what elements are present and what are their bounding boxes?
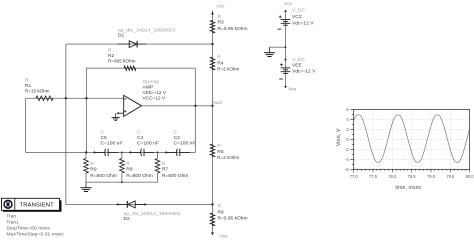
svg-text:TRANSIENT: TRANSIENT xyxy=(20,202,55,208)
svg-text:C: C xyxy=(174,130,178,136)
svg-text:77.5: 77.5 xyxy=(369,174,378,179)
svg-text:Vout: Vout xyxy=(213,100,222,106)
transient icon xyxy=(3,200,12,209)
wire D1 top feedback wire xyxy=(66,43,213,45)
node junction rail D2 xyxy=(211,203,213,205)
svg-text:OpAmp: OpAmp xyxy=(143,79,160,85)
wire R8 top lead xyxy=(121,152,123,158)
resistor R6 xyxy=(210,213,215,226)
ground ladder xyxy=(85,182,87,187)
wire ladder resistor ground bus xyxy=(86,173,158,182)
svg-text:D1: D1 xyxy=(118,33,125,39)
node junction ladder first node xyxy=(85,151,87,153)
svg-text:R=5.95 kOhm: R=5.95 kOhm xyxy=(218,26,248,32)
svg-text:R=600 Ohm: R=600 Ohm xyxy=(126,173,153,179)
wire right rail Vcc to Vee xyxy=(212,11,214,233)
wire ladder input drop xyxy=(25,98,27,152)
node junction output/R2/ladder xyxy=(194,105,196,107)
svg-text:Vee: Vee xyxy=(220,234,229,239)
node junction R8 bottom xyxy=(121,181,123,183)
svg-text:time, msec: time, msec xyxy=(395,185,421,191)
svg-text:R: R xyxy=(25,78,29,84)
capacitor C4 xyxy=(140,149,143,156)
svg-text:R: R xyxy=(90,161,94,167)
diode D2 xyxy=(116,203,127,205)
svg-text:Vcc: Vcc xyxy=(284,1,293,7)
node Vout junction rail output xyxy=(211,105,213,107)
svg-text:D2: D2 xyxy=(124,216,131,222)
wire inverting node down to ladder node xyxy=(85,98,87,152)
plot x ticks and labels xyxy=(353,169,355,172)
svg-text:R: R xyxy=(217,55,221,61)
svg-text:R: R xyxy=(108,48,112,54)
svg-text:R5: R5 xyxy=(217,149,224,155)
transient controller block xyxy=(3,200,62,212)
resistor R9 xyxy=(84,159,89,174)
svg-text:R8: R8 xyxy=(126,167,133,173)
svg-text:ap_dio_1N914_19930601: ap_dio_1N914_19930601 xyxy=(118,28,176,34)
svg-text:VCC=12 V: VCC=12 V xyxy=(143,96,166,102)
node junction D1 line x inverting wire xyxy=(65,97,67,99)
wire power branch xyxy=(285,11,287,88)
node junction R8 top xyxy=(121,152,123,154)
wire op-amp output xyxy=(142,105,213,107)
svg-text:R7: R7 xyxy=(162,167,169,173)
svg-text:C3: C3 xyxy=(174,135,181,141)
ground power supply xyxy=(269,47,271,52)
node junction power ground xyxy=(285,46,287,48)
svg-text:R4: R4 xyxy=(217,61,224,67)
plot frame xyxy=(354,110,470,170)
wire RC ladder chain xyxy=(26,151,196,153)
wire R2 right drop to output xyxy=(194,68,196,152)
svg-text:R: R xyxy=(162,161,166,167)
svg-text:78.0: 78.0 xyxy=(388,174,397,179)
node junction R7 top xyxy=(157,152,159,154)
node junction rail D1 xyxy=(211,43,213,45)
svg-text:VEE=-12 V: VEE=-12 V xyxy=(143,90,167,96)
svg-text:R=495 kOhm: R=495 kOhm xyxy=(108,59,136,65)
resistor R8 xyxy=(120,159,125,174)
svg-text:R1: R1 xyxy=(25,83,32,89)
capacitor C3 xyxy=(176,149,179,156)
wire inverting input (R1 to op-amp) xyxy=(26,97,124,99)
plot y ticks and labels xyxy=(350,109,354,111)
wire D2 bottom feedback wire xyxy=(66,203,213,205)
svg-text:Vdc=-12 V: Vdc=-12 V xyxy=(292,68,316,74)
wire power ground stub xyxy=(270,46,286,48)
resistor R4 xyxy=(210,57,215,70)
svg-text:C4: C4 xyxy=(137,135,144,141)
resistor R1 xyxy=(36,96,53,101)
svg-text:C=100 nF: C=100 nF xyxy=(137,141,159,147)
wire R2 feedback loop xyxy=(86,68,195,98)
voltage source VCC V_DC xyxy=(279,16,282,18)
svg-text:80.0: 80.0 xyxy=(466,174,474,179)
svg-text:StopTime=80 msec: StopTime=80 msec xyxy=(6,225,51,231)
svg-text:R: R xyxy=(218,204,222,210)
svg-text:C: C xyxy=(101,130,105,136)
resistor R7 xyxy=(155,159,160,174)
svg-text:C=100 nF: C=100 nF xyxy=(101,141,123,147)
node junction R2 left drop xyxy=(85,97,87,99)
diode D1 xyxy=(118,43,130,45)
svg-text:V_DC: V_DC xyxy=(292,8,306,14)
svg-text:Vee: Vee xyxy=(288,87,297,93)
svg-text:Vcc: Vcc xyxy=(216,4,225,10)
svg-text:78.5: 78.5 xyxy=(408,174,417,179)
svg-text:C5: C5 xyxy=(101,135,108,141)
plot gridlines xyxy=(372,110,374,170)
wire R7 top lead xyxy=(157,152,159,158)
svg-text:R9: R9 xyxy=(90,167,97,173)
resistor R5 xyxy=(210,144,215,157)
svg-text:Vout, V: Vout, V xyxy=(336,128,342,146)
op-amp U1 AMP xyxy=(124,95,142,116)
svg-text:Tran1: Tran1 xyxy=(6,220,19,226)
svg-text:Tran: Tran xyxy=(6,214,16,220)
svg-text:R2: R2 xyxy=(108,53,115,59)
capacitor C5 xyxy=(104,149,107,156)
svg-text:VCC: VCC xyxy=(292,14,303,20)
voltage source VEE V_DC xyxy=(284,58,287,60)
wire left vertical from D1 to D2 xyxy=(65,44,67,204)
ground op-amp plus input xyxy=(115,113,117,117)
svg-text:AMP: AMP xyxy=(143,85,154,91)
svg-text:C: C xyxy=(137,130,141,136)
svg-text:79.5: 79.5 xyxy=(446,174,455,179)
plot waveform Vout sine xyxy=(354,115,470,162)
svg-text:R=5.95 kOhm: R=5.95 kOhm xyxy=(218,216,248,222)
svg-text:R3: R3 xyxy=(218,19,225,25)
resistor R2 xyxy=(124,66,136,71)
wire R9 top lead xyxy=(85,152,87,158)
svg-text:R6: R6 xyxy=(218,210,225,216)
svg-text:R=600 Ohm: R=600 Ohm xyxy=(90,173,117,179)
node Vee rail bottom xyxy=(211,232,214,235)
svg-text:R=15 kOhm: R=15 kOhm xyxy=(25,89,50,95)
svg-text:R=600 Ohm: R=600 Ohm xyxy=(162,173,189,179)
svg-text:ap_dio_1N914_19930601: ap_dio_1N914_19930601 xyxy=(124,211,182,217)
resistor R3 xyxy=(210,20,215,33)
svg-text:R: R xyxy=(217,143,221,149)
svg-text:R: R xyxy=(126,161,130,167)
svg-text:R=2 kOhm: R=2 kOhm xyxy=(217,155,239,161)
svg-text:MaxTimeStep=0.01 msec: MaxTimeStep=0.01 msec xyxy=(6,232,64,238)
svg-text:V_DC: V_DC xyxy=(292,57,306,63)
svg-text:C=100 nF: C=100 nF xyxy=(174,141,196,147)
svg-text:Vdc=12 V: Vdc=12 V xyxy=(292,21,314,27)
svg-text:R: R xyxy=(218,14,222,20)
node Vee power bottom xyxy=(284,86,287,88)
svg-text:R=2 kOhm: R=2 kOhm xyxy=(217,67,239,73)
svg-text:77.0: 77.0 xyxy=(350,174,359,179)
svg-text:VEE: VEE xyxy=(292,63,303,69)
node Vcc rail top xyxy=(211,12,214,15)
svg-text:79.0: 79.0 xyxy=(427,174,436,179)
